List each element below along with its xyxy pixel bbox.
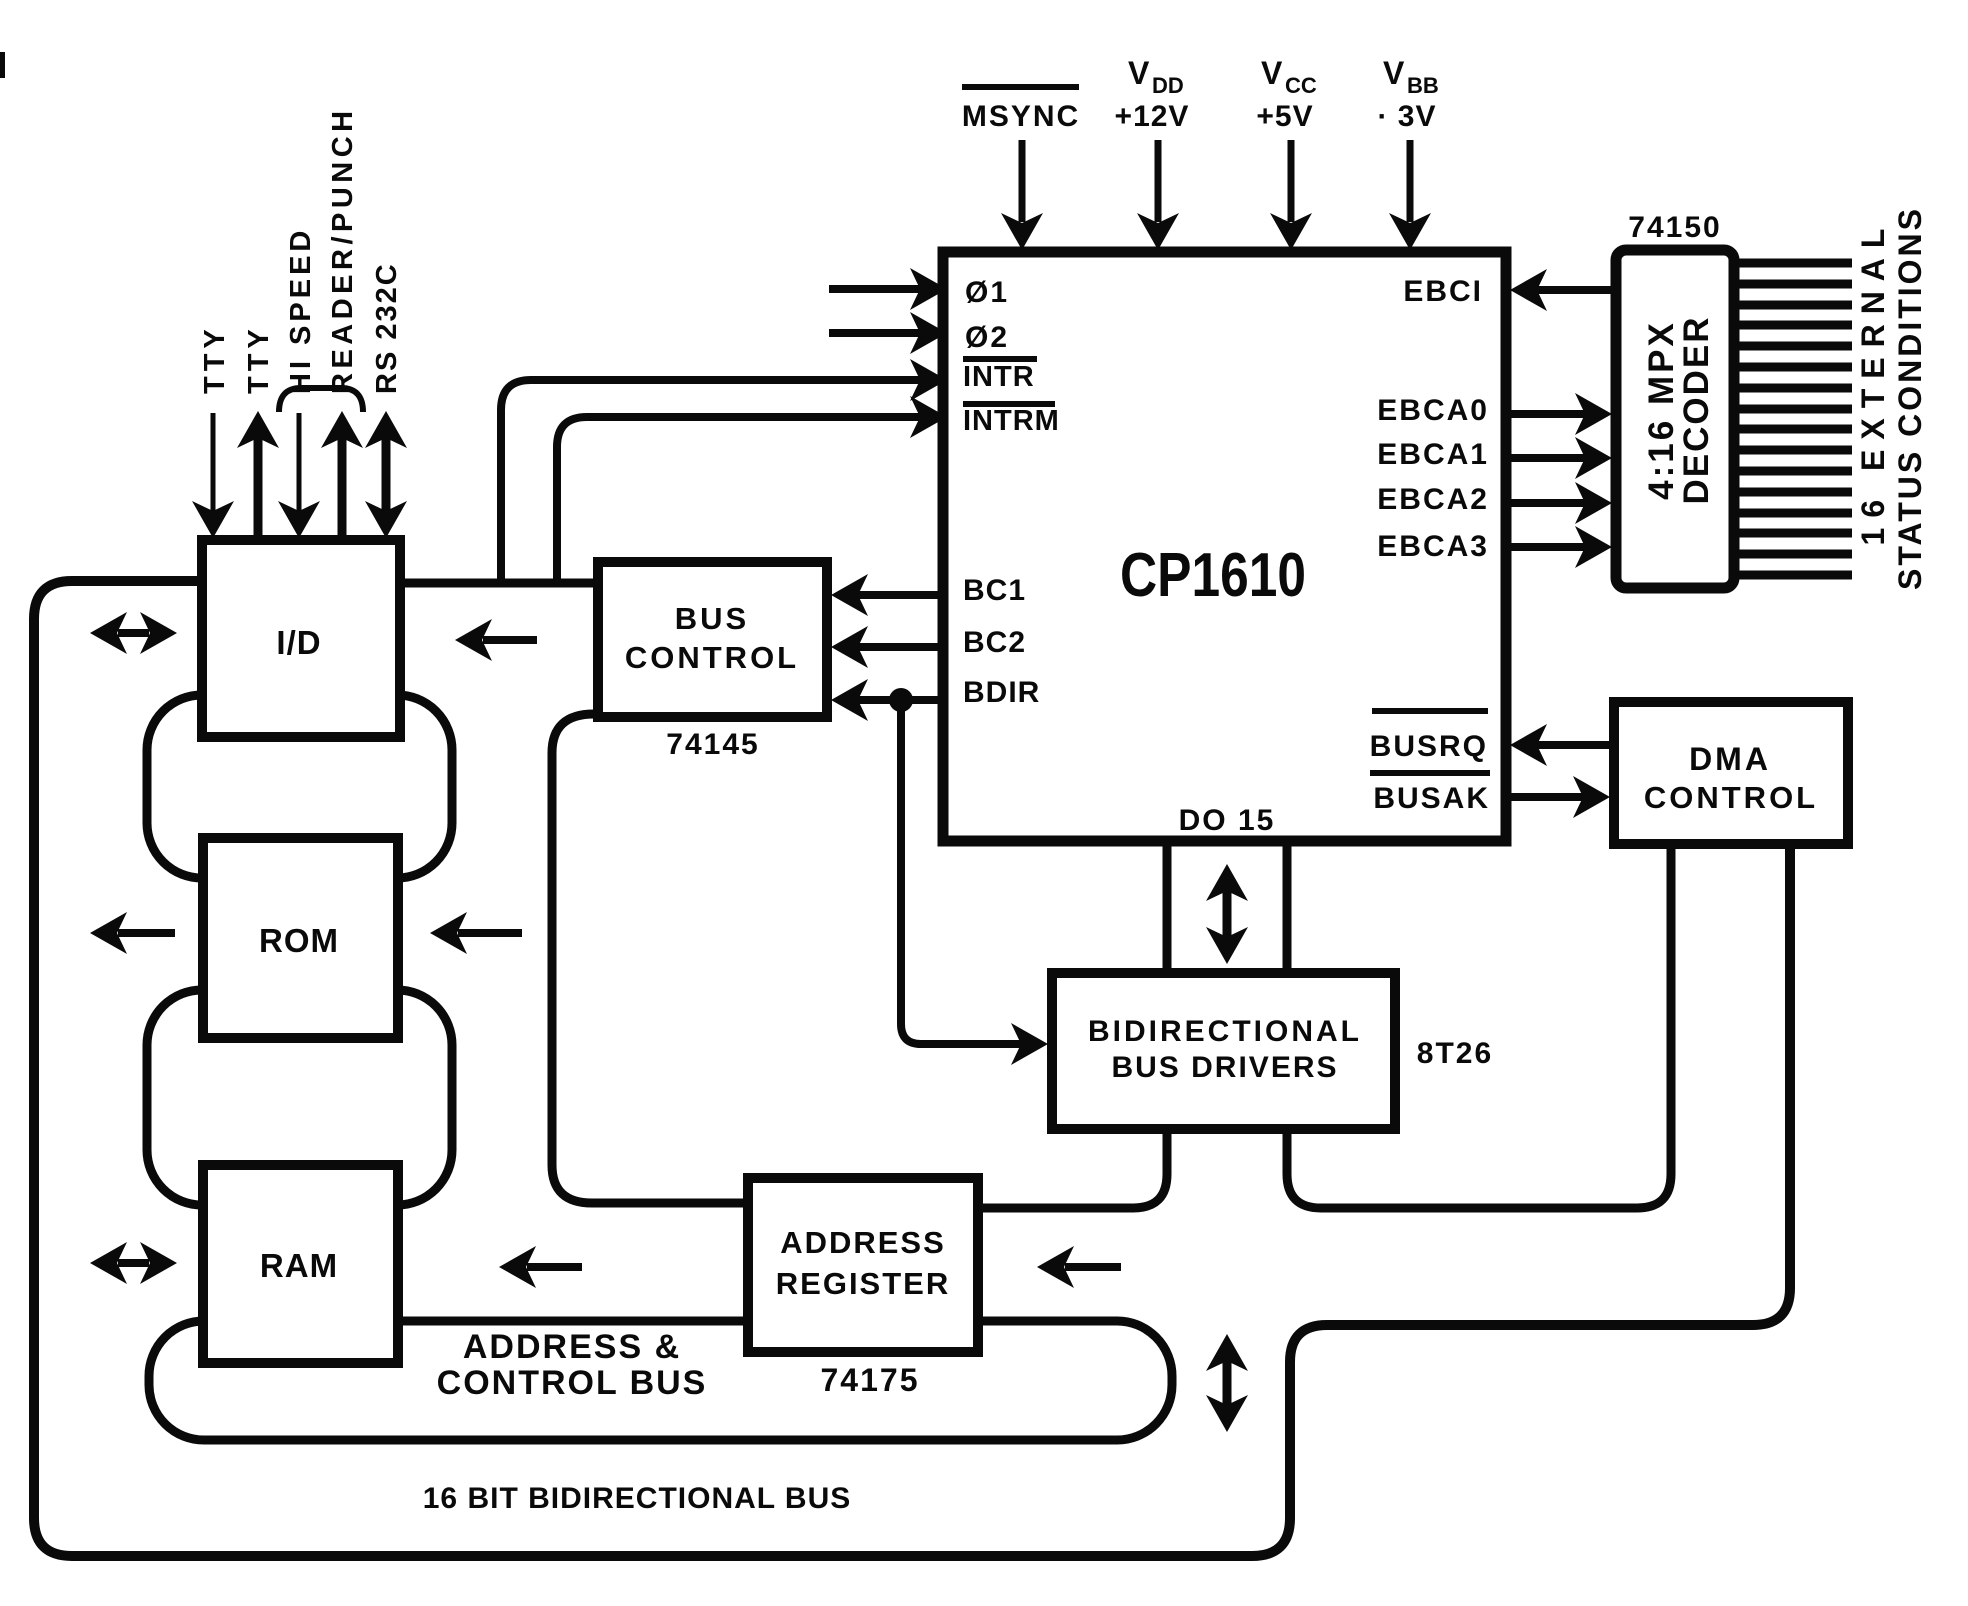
svg-text:READER/PUNCH: READER/PUNCH — [327, 106, 359, 394]
svg-text:4:16 MPX: 4:16 MPX — [1642, 320, 1681, 500]
block BUS CONTROL 74145 — [598, 562, 827, 717]
arrow bidirectional at RAM left — [118, 1259, 149, 1267]
svg-text:DO 15: DO 15 — [1179, 804, 1276, 837]
arrowhead BC2 into BUS CONTROL — [831, 626, 868, 668]
svg-text:MSYNC: MSYNC — [962, 100, 1080, 133]
wire BDIR — [848, 696, 943, 704]
svg-text:BUSAK: BUSAK — [1373, 782, 1490, 815]
svg-text:BUS: BUS — [675, 601, 749, 636]
svg-text:DD: DD — [1152, 73, 1184, 98]
wire BUSRQ — [1524, 741, 1614, 749]
wire bus capsule ROM to RAM — [147, 990, 452, 1205]
svg-text:I/D: I/D — [276, 624, 321, 661]
wire BC1 — [848, 591, 943, 599]
wire EBCI — [1524, 286, 1616, 294]
arrowhead BUSRQ into CP1610 — [1510, 724, 1547, 766]
block ADDRESS REGISTER 74175 — [748, 1178, 978, 1352]
block 4:16 MPX DECODER 74150 — [1616, 250, 1734, 588]
wire D0-15 bus left rail — [1163, 841, 1172, 973]
arrow left at ADDRESS REGISTER right — [1065, 1263, 1121, 1271]
svg-text:· 3V: · 3V — [1377, 100, 1436, 133]
arrow bidirectional lower bus link — [1223, 1361, 1232, 1405]
svg-text:74175: 74175 — [821, 1362, 920, 1398]
svg-text:EBCA2: EBCA2 — [1377, 483, 1489, 516]
arrowhead BDIR branch into bus drivers — [1011, 1023, 1048, 1065]
svg-text:CC: CC — [1285, 73, 1317, 98]
svg-text:REGISTER: REGISTER — [776, 1266, 950, 1301]
svg-text:BIDIRECTIONAL: BIDIRECTIONAL — [1088, 1015, 1362, 1048]
wire VBB input — [1407, 140, 1414, 222]
wire RS232C line bidirectional — [382, 438, 391, 512]
arrowhead phase 1 into CP1610 — [910, 268, 947, 310]
svg-text:INTRM: INTRM — [963, 405, 1060, 437]
arrowhead EBCA1 into decoder — [1575, 437, 1612, 479]
svg-text:Ø2: Ø2 — [965, 321, 1009, 354]
svg-text:16 EXTERNAL: 16 EXTERNAL — [1855, 219, 1891, 546]
svg-text:EBCA1: EBCA1 — [1377, 438, 1489, 471]
block CP1610 — [943, 252, 1506, 841]
arrowhead INTRM into CP1610 — [910, 396, 947, 438]
label 16 EXTERNAL — [1855, 219, 1891, 546]
junction BDIR node — [889, 688, 913, 712]
wire HI SPEED line into I/D — [297, 413, 302, 512]
block I/D — [202, 540, 400, 737]
arrowhead EBCA0 into decoder — [1575, 393, 1612, 435]
svg-text:ROM: ROM — [259, 922, 339, 959]
wire EBCA3 — [1506, 543, 1598, 551]
svg-text:ADDRESS: ADDRESS — [780, 1225, 946, 1260]
svg-text:DECODER: DECODER — [1677, 315, 1716, 504]
block ROM — [203, 838, 398, 1038]
arrowhead INTR into CP1610 — [910, 359, 947, 401]
svg-text:TTY: TTY — [199, 324, 231, 394]
svg-text:74150: 74150 — [1628, 211, 1721, 244]
wire VDD input — [1155, 140, 1162, 222]
svg-text:BC2: BC2 — [963, 626, 1026, 659]
wire VCC input — [1288, 140, 1295, 222]
wire BUSAK — [1506, 793, 1596, 801]
wire READER/PUNCH line out of I/D — [338, 438, 347, 540]
arrow left at ROM right — [458, 929, 522, 937]
wire EBCA2 — [1506, 499, 1598, 507]
svg-text:TTY: TTY — [243, 324, 275, 394]
svg-text:STATUS CONDITIONS: STATUS CONDITIONS — [1892, 206, 1928, 590]
svg-text:CONTROL: CONTROL — [1644, 780, 1818, 815]
wire I/D to BUS CONTROL — [400, 579, 598, 588]
arrowhead EBCI into CP1610 — [1510, 269, 1547, 311]
arrowhead BC1 into BUS CONTROL — [831, 574, 868, 616]
block RAM — [203, 1165, 398, 1363]
wire D0-15 bus right rail — [1283, 841, 1292, 973]
svg-text:8T26: 8T26 — [1417, 1037, 1493, 1070]
wire 16-bit bidirectional bus outer loop — [34, 581, 1790, 1556]
wire INTRM — [557, 417, 936, 583]
svg-text:CONTROL BUS: CONTROL BUS — [437, 1364, 708, 1402]
wire bus drivers to address register — [978, 1129, 1167, 1208]
label RS 232C — [371, 262, 403, 394]
wire TTY line 1 into I/D — [211, 413, 216, 512]
arrowhead EBCA2 into decoder — [1575, 482, 1612, 524]
wire MSYNC input — [1019, 140, 1026, 222]
svg-text:BC1: BC1 — [963, 574, 1026, 607]
svg-text:Ø1: Ø1 — [965, 276, 1009, 309]
arrow left at RAM right — [527, 1263, 582, 1271]
arrow bidirectional D0-15 bus — [1223, 891, 1232, 937]
wire BDIR branch to bus drivers — [901, 700, 1036, 1044]
svg-text:BB: BB — [1407, 73, 1439, 98]
svg-text:V: V — [1383, 55, 1405, 91]
wire bus capsule I/D to ROM — [147, 695, 452, 878]
wire address bus capsule RAM to right end — [149, 1321, 1172, 1440]
arrow left at ROM left — [118, 929, 175, 937]
wire TTY line 2 out of I/D — [254, 438, 263, 540]
label READER/PUNCH — [327, 106, 359, 394]
svg-text:INTR: INTR — [963, 361, 1035, 393]
arrow left between I/D and BUS CONTROL — [483, 636, 537, 644]
arrowhead phase 2 into CP1610 — [910, 312, 947, 354]
wire EBCA0 — [1506, 410, 1598, 418]
wire BC2 — [848, 643, 943, 651]
svg-text:DMA: DMA — [1689, 741, 1771, 777]
svg-text:74145: 74145 — [666, 728, 759, 761]
svg-text:V: V — [1261, 55, 1283, 91]
wire BUS CONTROL to ADDRESS REGISTER — [552, 714, 748, 1203]
arrowhead BUSAK into DMA control — [1573, 776, 1610, 818]
wire INTR — [501, 380, 936, 583]
scan artifact tick top-left — [0, 52, 5, 78]
svg-text:RAM: RAM — [260, 1247, 338, 1284]
label HI SPEED — [285, 227, 317, 394]
arrowhead BDIR into BUS CONTROL — [831, 679, 868, 721]
svg-text:+5V: +5V — [1256, 100, 1313, 133]
label STATUS CONDITIONS — [1892, 206, 1928, 590]
svg-text:+12V: +12V — [1115, 100, 1190, 133]
svg-text:EBCA0: EBCA0 — [1377, 394, 1489, 427]
arrowhead EBCA3 into decoder — [1575, 526, 1612, 568]
svg-text:BUS DRIVERS: BUS DRIVERS — [1111, 1051, 1338, 1084]
svg-text:RS 232C: RS 232C — [371, 262, 403, 394]
svg-text:BUSRQ: BUSRQ — [1370, 730, 1488, 763]
wire phase 2 clock input — [829, 329, 928, 337]
svg-text:ADDRESS &: ADDRESS & — [463, 1328, 681, 1366]
svg-text:EBCA3: EBCA3 — [1377, 530, 1489, 563]
svg-text:EBCI: EBCI — [1403, 275, 1483, 308]
arrow bidirectional at I/D left — [118, 629, 149, 637]
wire bus drivers to DMA control — [1287, 844, 1671, 1208]
wire EBCA1 — [1506, 454, 1598, 462]
svg-text:BDIR: BDIR — [963, 676, 1040, 709]
block BIDIRECTIONAL BUS DRIVERS 8T26 — [1052, 973, 1395, 1129]
wire phase 1 clock input — [829, 285, 928, 293]
svg-text:16 BIT BIDIRECTIONAL BUS: 16 BIT BIDIRECTIONAL BUS — [423, 1482, 852, 1515]
svg-text:CP1610: CP1610 — [1120, 541, 1306, 610]
svg-text:CONTROL: CONTROL — [625, 640, 799, 675]
label TTY first channel — [199, 324, 231, 394]
svg-text:HI SPEED: HI SPEED — [285, 227, 317, 394]
block DMA CONTROL — [1614, 702, 1848, 844]
brace grouping HI SPEED READER/PUNCH — [279, 388, 363, 412]
label TTY second channel — [243, 324, 275, 394]
wires 16 external status condition lines — [1734, 263, 1852, 575]
svg-text:V: V — [1128, 55, 1150, 91]
